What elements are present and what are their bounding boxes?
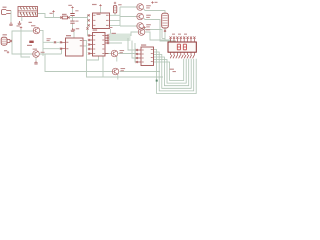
ground below X1	[9, 22, 13, 26]
junction dot on loop	[156, 80, 158, 82]
wire: crystal branch vertical	[72, 9, 74, 28]
wire: X1 to ground	[10, 11, 12, 23]
wire: IC3 output bus band	[109, 32, 138, 43]
wire: IC1 right pins to transistor bases bus	[110, 7, 137, 26]
resistor network RN1	[162, 13, 169, 28]
display net labels	[170, 69, 176, 73]
ground below SW1	[18, 21, 22, 25]
wire: IC2 outputs to IC3	[83, 41, 111, 78]
wire: IC2 supply stub	[73, 32, 75, 39]
wire: bus band fill	[109, 34, 131, 42]
+5V near T6	[143, 26, 145, 28]
wire: display loop 2	[154, 52, 194, 91]
wire: band stub up	[110, 29, 112, 34]
ground below T2	[34, 61, 38, 65]
wire: display loop 3	[154, 55, 192, 89]
IC1 (oscillator/divider)	[93, 13, 110, 29]
connector X2 (left middle)	[1, 34, 10, 45]
junction cross below RN1	[164, 30, 166, 32]
wire: display loop 4	[154, 57, 189, 86]
wire: R1 supply stub	[53, 13, 55, 18]
label above band	[109, 27, 113, 28]
transistor T1	[31, 25, 40, 34]
IC4 (display driver)	[137, 44, 153, 65]
wire: +5V rail left vertical	[21, 29, 30, 57]
transistor T3	[137, 4, 151, 11]
wire: T1 collector to IC2 inputs	[40, 30, 61, 56]
label right of IC3	[112, 33, 116, 34]
wire: T2 collector and long bottom net	[36, 49, 112, 72]
junction crosses at IC3 pins	[88, 34, 109, 54]
resistor R1 (series, on main net)	[60, 14, 70, 19]
junction crosses at IC1 left pins	[86, 14, 89, 29]
IC3 (counter)	[89, 29, 109, 56]
wire: IC1 left pin nets	[88, 18, 90, 36]
wire: nets to IC4 left pins	[118, 38, 137, 62]
label near SW1 ground	[29, 22, 32, 23]
junction crosses at IC4 left pins	[136, 49, 138, 63]
ground below C2	[71, 28, 75, 32]
wire: SW1 ground stub	[21, 17, 23, 22]
connector X1 (top left)	[2, 7, 11, 15]
transistor T7	[111, 50, 124, 57]
wire: IC1 supply stub	[100, 7, 102, 13]
+5V top right	[151, 1, 157, 3]
wire: display loop 5	[154, 59, 187, 83]
wire: main horizontal net from switch to IC1	[38, 14, 90, 18]
transistor T4	[137, 13, 151, 20]
+5V above IC1	[99, 4, 101, 6]
wire: T7 emitter drop	[116, 56, 118, 61]
wire: display loop 1 outermost	[154, 50, 197, 94]
capacitor C2	[70, 21, 74, 23]
+5V left rail symbol	[17, 25, 23, 28]
IC1 label	[92, 4, 97, 5]
net label flag below T1	[27, 41, 34, 46]
+5V above R2	[114, 2, 116, 4]
+5V above IC2	[73, 28, 79, 31]
wire: display loop 6	[154, 59, 184, 81]
wire: transistor collector nets to resistor network and display	[144, 9, 177, 41]
transistor T2	[33, 49, 45, 58]
transistor T5	[137, 23, 151, 30]
+5V above crystal branch	[68, 5, 73, 9]
wire: T8 base net	[103, 72, 163, 78]
wire: T6 collector to display pins	[145, 32, 171, 40]
wire: left connector to T1 and T2 bases	[10, 31, 33, 54]
DIP switch SW1	[18, 7, 38, 17]
junction cross at X2 pin	[10, 40, 12, 42]
label: net name near IC2 inputs	[47, 38, 51, 41]
+5V symbol near R1	[50, 10, 55, 14]
junction crosses at IC2 left pins	[54, 41, 62, 50]
+5V symbol lower left	[4, 50, 9, 53]
7-segment display DIS1	[168, 34, 196, 59]
transistor T6	[138, 29, 150, 36]
transistor T8	[112, 68, 125, 75]
resistor R2 (vertical near IC1)	[113, 4, 121, 13]
wire: T8 emitter drop	[117, 74, 119, 79]
IC2	[62, 35, 84, 56]
capacitor C1	[70, 14, 74, 16]
capacitor value labels	[75, 10, 78, 21]
